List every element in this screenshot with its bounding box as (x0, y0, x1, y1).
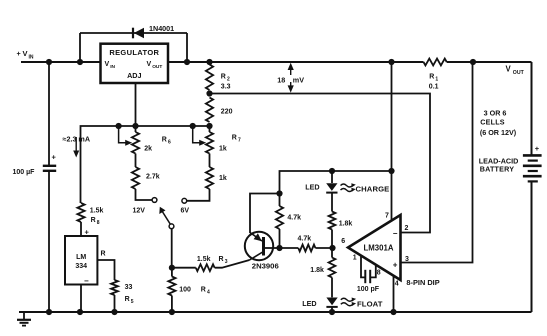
label cap plus (52, 153, 57, 162)
node switch common (169, 265, 175, 271)
wire 1k to 6V contact (187, 189, 210, 201)
label R3 (197, 256, 228, 265)
svg-text:BATTERY: BATTERY (480, 164, 515, 173)
wire diode anode riser (79, 33, 81, 62)
svg-text:100 pF: 100 pF (357, 286, 380, 293)
label LM (76, 254, 86, 261)
label CHARGE (356, 185, 390, 194)
wire pin8 lead (371, 265, 376, 278)
node ground R5 (111, 309, 117, 315)
node cap/input junction (46, 59, 52, 65)
switch wiper pole (169, 224, 174, 229)
node pin7 supply tap (388, 59, 394, 65)
wire wiper to node (171, 229, 173, 268)
label 334 (75, 263, 87, 270)
node ground cap (46, 309, 52, 315)
wire pin4 to ground (393, 276, 395, 312)
wire ADJ line (81, 126, 210, 203)
switch wiper arm (159, 207, 170, 224)
potentiometer R6 2k (132, 132, 139, 154)
svg-text:CELLS: CELLS (480, 117, 505, 126)
svg-text:1.8k: 1.8k (310, 267, 324, 274)
switch 6V contact (182, 198, 187, 203)
svg-text:1: 1 (353, 255, 357, 262)
svg-text:6: 6 (341, 238, 345, 245)
label regulator VIN (105, 61, 116, 70)
label REGULATOR (109, 48, 159, 57)
wire LED charge lead (331, 171, 333, 183)
svg-text:V: V (147, 61, 152, 68)
svg-text:−: − (393, 229, 398, 238)
svg-text:LM301A: LM301A (364, 243, 394, 252)
label BATTERY (480, 164, 515, 173)
node ground LED float (329, 309, 335, 315)
label current arrow (73, 137, 79, 158)
LED charge rays (341, 183, 356, 192)
node battery sense tap (470, 59, 476, 65)
label 100uF (13, 169, 36, 176)
svg-text:18: 18 (277, 76, 285, 85)
label R6 (162, 137, 171, 146)
resistor 4.7k horizontal (280, 245, 333, 252)
label R2 (221, 74, 230, 83)
node ADJ junction (132, 123, 138, 129)
svg-text:IN: IN (29, 55, 34, 61)
svg-text:4.7k: 4.7k (298, 236, 312, 243)
svg-text:LM: LM (76, 254, 86, 261)
svg-text:+: + (52, 153, 57, 162)
svg-text:8-PIN DIP: 8-PIN DIP (406, 278, 439, 287)
label battery plus (535, 144, 540, 153)
svg-text:(6 OR 12V): (6 OR 12V) (480, 128, 517, 137)
svg-text:4: 4 (395, 281, 399, 288)
wire LED float to rail (331, 307, 333, 312)
label R5 (125, 284, 134, 305)
svg-text:CHARGE: CHARGE (356, 185, 390, 194)
label 6V (181, 208, 190, 215)
wire R6 to 2.7k (135, 154, 137, 168)
node op-amp input 6 (329, 245, 335, 251)
label LEAD-ACID (479, 156, 519, 165)
LED float (326, 298, 337, 307)
label R1 (429, 74, 438, 83)
label 4.7k vertical (287, 215, 301, 222)
label CELLS (480, 117, 505, 126)
label pin 8 (377, 270, 381, 277)
wire pin7 stub (391, 171, 393, 221)
battery BT1 (523, 155, 542, 181)
label 3 OR 6 (484, 108, 507, 117)
label 2k (144, 146, 152, 153)
resistor 2.7k (132, 167, 139, 189)
wire LM334 R pin (97, 260, 114, 280)
current source U3 LM334 box (65, 236, 97, 285)
svg-text:2: 2 (227, 77, 230, 83)
svg-text:3: 3 (225, 259, 228, 265)
label +VIN (17, 49, 34, 61)
svg-text:12V: 12V (133, 208, 146, 215)
wire cap bottom lead (48, 171, 50, 312)
diode D1 1N4001 (133, 28, 144, 39)
label pin 3 (405, 256, 409, 263)
svg-text:8: 8 (377, 270, 381, 277)
label 220 (221, 109, 233, 116)
resistor 1k lower (206, 167, 213, 189)
wire sense line to pin2 (210, 94, 431, 233)
wire LED supply line (280, 171, 392, 194)
R7 wiper arrow (193, 126, 207, 146)
svg-text:R: R (219, 256, 224, 263)
svg-text:R: R (232, 135, 237, 142)
node R7 wiper tap (190, 123, 196, 129)
LED charge (326, 183, 337, 192)
svg-text:2.7k: 2.7k (146, 174, 160, 181)
svg-text:ADJ: ADJ (127, 71, 141, 80)
svg-text:220: 220 (221, 109, 233, 116)
svg-text:7: 7 (238, 138, 241, 144)
wire diode cathode drop (186, 33, 188, 62)
wire R6 top lead (135, 126, 137, 132)
svg-text:OUT: OUT (152, 64, 162, 70)
svg-text:V: V (23, 49, 28, 58)
R6 wiper arrow (119, 126, 133, 146)
wire cap top lead (48, 62, 50, 166)
Q1 base bar (262, 237, 265, 256)
wire Q1 base lead (264, 247, 280, 249)
resistor 4.7k vertical (276, 194, 283, 249)
ground rail (19, 311, 532, 313)
label 4.7k horizontal (298, 236, 312, 243)
potentiometer R7 1k (206, 132, 213, 154)
svg-text:2: 2 (405, 225, 409, 232)
label pin 1 (353, 255, 357, 262)
wire battery top lead (531, 62, 533, 155)
label LM301A (364, 243, 394, 252)
wire battery bottom lead (531, 181, 533, 312)
label R8 (90, 208, 104, 227)
label 100 pF (357, 286, 380, 293)
resistor R5 33 (111, 280, 118, 312)
label 6 OR 12V (480, 128, 517, 137)
svg-text:LED: LED (305, 183, 319, 192)
label 1.8k upper (339, 221, 353, 228)
wire top rail left (21, 61, 101, 63)
label 0.1 (429, 84, 439, 91)
wire diode top (80, 32, 187, 34)
svg-text:0.1: 0.1 (429, 84, 439, 91)
svg-text:1k: 1k (219, 146, 227, 153)
node ground pin4 (390, 309, 396, 315)
svg-text:5: 5 (131, 299, 134, 305)
label 18 mV arrow (288, 63, 294, 93)
label R7 (232, 135, 241, 144)
svg-text:R: R (91, 217, 96, 224)
label minus input (393, 229, 398, 238)
node ground LM334 (77, 309, 83, 315)
label R4 (179, 287, 210, 296)
label VOUT (506, 65, 525, 76)
svg-text:R: R (221, 74, 226, 81)
svg-text:1.8k: 1.8k (339, 221, 353, 228)
resistor R2 (206, 65, 213, 91)
node R6 wiper tap (116, 123, 122, 129)
wire emitter riser (250, 194, 280, 234)
svg-text:4: 4 (207, 290, 210, 296)
svg-text:REGULATOR: REGULATOR (109, 48, 159, 57)
label 1N4001 (149, 24, 174, 33)
label pin 7 (385, 213, 389, 220)
node diode anode junction (77, 59, 83, 65)
svg-text:4.7k: 4.7k (287, 215, 301, 222)
Q1 collector (250, 252, 264, 261)
label LM334 minus (84, 277, 89, 286)
wire pin7 supply (391, 62, 393, 171)
svg-text:6: 6 (168, 140, 171, 146)
wire top rail mid (168, 61, 424, 63)
resistor R1 (424, 59, 447, 66)
label LM334 plus (85, 228, 90, 237)
label LED charge (305, 183, 319, 192)
Q1 emitter (250, 233, 262, 242)
label pin 6 (341, 238, 345, 245)
svg-text:2N3906: 2N3906 (252, 262, 279, 271)
svg-text:+: + (393, 261, 398, 270)
transistor Q1 2N3906 body (245, 232, 273, 260)
svg-text:R: R (201, 287, 206, 294)
label 8-PIN DIP (406, 278, 439, 287)
svg-text:R: R (101, 251, 106, 258)
svg-text:33: 33 (125, 284, 133, 291)
label 2.7k (146, 174, 160, 181)
switch 12V contact (152, 198, 157, 203)
wire pin3 to battery sense (401, 62, 473, 263)
label 2.3 mA (63, 135, 91, 144)
svg-text:−: − (84, 277, 89, 286)
svg-text:1: 1 (435, 77, 438, 83)
resistor R8 1.5k (77, 203, 84, 236)
node R2 bottom (206, 90, 212, 96)
svg-text:100 µF: 100 µF (13, 169, 36, 176)
label LED float (302, 299, 316, 308)
svg-text:LED: LED (302, 299, 316, 308)
label 12V (133, 208, 146, 215)
node LED charge tap (329, 168, 335, 174)
svg-text:IN: IN (110, 64, 115, 70)
op-amp U1 LM301A (348, 215, 401, 280)
svg-text:2k: 2k (144, 146, 152, 153)
label plus input (393, 261, 398, 270)
resistor R3 1.5k (196, 264, 215, 271)
label regulator VOUT (147, 61, 163, 70)
resistor 220 (206, 98, 213, 123)
svg-text:1.5k: 1.5k (197, 256, 211, 263)
node emitter/4.7k (276, 190, 282, 196)
svg-text:100: 100 (179, 287, 191, 294)
node Q1 base (276, 245, 282, 251)
svg-text:334: 334 (75, 263, 87, 270)
label pin 4 (395, 281, 399, 288)
wire R3 to Q1 collector (215, 260, 250, 268)
wire 2.7k to 12V contact (136, 189, 153, 200)
LED float rays (341, 298, 356, 307)
svg-text:FLOAT: FLOAT (357, 300, 383, 309)
node ground R4 (169, 309, 175, 315)
svg-text:R: R (429, 74, 434, 81)
wire pin1 lead (361, 256, 365, 278)
svg-text:V: V (105, 61, 110, 68)
svg-text:1.5k: 1.5k (90, 208, 104, 215)
svg-text:3 OR 6: 3 OR 6 (484, 108, 507, 117)
resistor 1.8k upper (329, 193, 336, 248)
wire LM334 bottom (80, 285, 82, 313)
svg-text:1k: 1k (219, 175, 227, 182)
svg-text:7: 7 (385, 213, 389, 220)
node R2 top (206, 59, 212, 65)
svg-text:6V: 6V (181, 208, 190, 215)
svg-text:+: + (17, 49, 21, 58)
label FLOAT (357, 300, 383, 309)
svg-text:8: 8 (97, 220, 100, 226)
label 2N3906 (252, 262, 279, 271)
wire node to R3 (172, 267, 196, 269)
svg-text:V: V (506, 65, 512, 74)
node divider bottom (206, 123, 212, 129)
wire R7 to 1k (209, 154, 211, 168)
resistor R4 100 (168, 268, 175, 312)
capacitor C1 100uF (43, 166, 56, 171)
svg-text:1N4001: 1N4001 (149, 24, 174, 33)
label pin 2 (405, 225, 409, 232)
wire regulator ADJ pin (135, 83, 137, 126)
capacitor 100pF (365, 270, 370, 283)
label 1.8k lower (310, 267, 324, 274)
regulator U2 box (101, 44, 169, 83)
resistor 1.8k lower (329, 248, 336, 297)
label 1k upper (219, 146, 227, 153)
label 1k lower (219, 175, 227, 182)
svg-text:+: + (535, 144, 540, 153)
wire top rail right (447, 61, 532, 63)
node regulator output (184, 59, 190, 65)
label 3.3 (221, 84, 231, 91)
label regulator ADJ (127, 71, 141, 80)
wire R7 top lead (209, 126, 211, 132)
svg-text:R: R (125, 296, 130, 303)
node pin7 tap (388, 168, 394, 174)
svg-text:R: R (162, 137, 167, 144)
svg-text:3.3: 3.3 (221, 84, 231, 91)
svg-text:OUT: OUT (513, 70, 525, 76)
svg-text:mV: mV (293, 76, 304, 85)
ground symbol (17, 312, 31, 326)
label 18 mV (277, 76, 304, 85)
label LM334 R pin (101, 251, 106, 258)
